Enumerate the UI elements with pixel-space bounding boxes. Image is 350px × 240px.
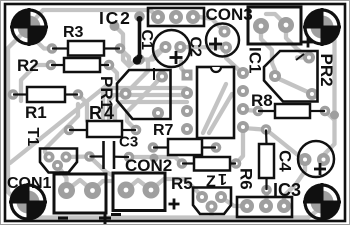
pads R3 bbox=[47, 43, 58, 54]
wire R2 right bbox=[109, 65, 117, 79]
wire IC1 pin1 up bbox=[181, 61, 187, 75]
wire jumper to C1 bbox=[140, 47, 166, 60]
pads C4 bbox=[299, 153, 312, 166]
potentiometer PR2 bbox=[264, 51, 318, 102]
mounting hole top-right bbox=[303, 8, 341, 46]
regulator IC3 body bbox=[237, 197, 292, 217]
pads R8 bbox=[253, 106, 264, 117]
wire C1 to C2 bbox=[180, 45, 226, 50]
resistor R7 bbox=[168, 139, 202, 155]
wire T1 to C3 bbox=[66, 154, 90, 159]
wire IC3 to C4 bbox=[284, 160, 305, 207]
pads R1 bbox=[8, 89, 19, 100]
capacitor C4 bbox=[298, 141, 334, 177]
svg-text:IC1: IC1 bbox=[246, 47, 265, 73]
minus CON2 bbox=[111, 213, 121, 216]
svg-text:IC2: IC2 bbox=[99, 8, 132, 28]
wire C3 to R5 bbox=[129, 157, 182, 164]
connector top-right 2-pad body bbox=[248, 7, 301, 44]
wire top rect pad2 down bbox=[286, 25, 309, 58]
pads IC1 left bbox=[181, 87, 193, 99]
op-amp IC1 DIP body bbox=[197, 67, 234, 138]
via pad C bbox=[110, 21, 120, 31]
potentiometer PR1 bbox=[117, 70, 171, 119]
svg-text:PR1: PR1 bbox=[97, 76, 116, 109]
wire T1 base diagonal bbox=[45, 104, 78, 157]
capacitor C1 bbox=[153, 30, 190, 67]
wire maze 1 bbox=[103, 88, 186, 126]
pads R6 bbox=[261, 124, 272, 135]
svg-text:R3: R3 bbox=[63, 24, 84, 41]
pads PR1 bbox=[120, 88, 132, 100]
wire R8 left to IC1 bbox=[246, 110, 258, 111]
svg-text:1: 1 bbox=[218, 170, 227, 187]
wire T1 emitter down bbox=[58, 166, 67, 191]
svg-text:R1: R1 bbox=[25, 103, 47, 122]
wire top rect pad1 down bbox=[261, 26, 275, 76]
resistor R1 bbox=[27, 87, 65, 102]
wire top rect diag bbox=[266, 14, 286, 25]
wire R2 left bbox=[21, 65, 51, 101]
wire PR1 wiper to C1 bbox=[126, 47, 166, 94]
pads R4 bbox=[64, 125, 75, 136]
via pad A bbox=[150, 154, 159, 163]
wire CON1 internal bbox=[67, 180, 93, 191]
pads PR2 bbox=[269, 70, 281, 82]
resistor R4 bbox=[87, 121, 122, 137]
jumper end dots bbox=[137, 16, 143, 22]
pads top 2-pad rect bbox=[253, 18, 269, 34]
pad layer bbox=[17, 16, 340, 214]
capacitor C3 bbox=[102, 141, 105, 169]
wire IC1 internal 1 bbox=[203, 84, 226, 133]
plus C1 bbox=[170, 56, 183, 59]
mounting pad top-right bbox=[311, 16, 334, 39]
pad holes bbox=[11, 15, 327, 209]
wire CON2 internal bbox=[126, 180, 151, 190]
pads IC1 right bbox=[237, 67, 249, 79]
connector CON1 body bbox=[54, 174, 106, 213]
wire IC1 pin to R6 top bbox=[243, 128, 263, 130]
polarity marks bbox=[58, 37, 326, 225]
svg-text:R6: R6 bbox=[237, 168, 256, 190]
pads T1 bbox=[44, 152, 55, 163]
pads Z1 bbox=[196, 191, 208, 203]
wire ground ring right vertical bbox=[322, 27, 335, 160]
resistor R3 bbox=[68, 41, 104, 56]
wire C3 pad to CON2 bbox=[90, 157, 112, 175]
wire maze 2 bbox=[109, 95, 187, 121]
svg-text:T1: T1 bbox=[24, 128, 41, 147]
via dot near PR1 bbox=[133, 56, 141, 64]
svg-text:IC3: IC3 bbox=[273, 180, 301, 200]
transistor T1 bbox=[40, 149, 77, 173]
wire IC1 internal 2 bbox=[209, 94, 232, 133]
svg-text:R8: R8 bbox=[251, 91, 273, 110]
svg-text:R7: R7 bbox=[153, 122, 174, 139]
svg-text:CON2: CON2 bbox=[125, 156, 172, 175]
transistor Z1 bbox=[193, 188, 231, 215]
svg-text:C1: C1 bbox=[138, 30, 155, 51]
wire R3 right bbox=[120, 49, 129, 65]
svg-text:C2: C2 bbox=[187, 37, 204, 58]
wire Z1 right to IC3 bbox=[221, 197, 247, 206]
pads C2 bbox=[219, 26, 231, 38]
resistor R8 bbox=[275, 104, 310, 118]
resistor R2 bbox=[64, 58, 100, 72]
wire R5 right up to IC1 bbox=[236, 128, 243, 164]
plus near PR2 bbox=[303, 41, 314, 44]
pads R5 bbox=[177, 158, 188, 169]
wire R6 top to C4 bbox=[266, 130, 305, 160]
wire R4 to PR1 top pad bbox=[127, 77, 161, 130]
wire IC2 pad down bbox=[115, 26, 135, 66]
resistor R5 bbox=[194, 157, 230, 171]
mounting pad bottom-right bbox=[311, 191, 334, 214]
pads jumper bbox=[134, 11, 145, 22]
minus CON1 bbox=[58, 217, 68, 220]
mounting pad bottom-left bbox=[17, 191, 40, 214]
jumper wire bbox=[138, 20, 142, 56]
pads C1 bbox=[160, 41, 172, 53]
svg-text:CON1: CON1 bbox=[7, 175, 52, 192]
mounting pad top-left bbox=[18, 16, 41, 39]
wire maze 3 bbox=[115, 102, 187, 120]
via pad B bbox=[330, 111, 339, 120]
wire C2 bottom to IC1 bbox=[226, 48, 243, 74]
pads IC3 bbox=[240, 199, 254, 213]
pads CON3 bbox=[151, 10, 165, 24]
wire PR2 top stub bbox=[297, 55, 309, 59]
pads CON1 bbox=[58, 182, 75, 199]
wire R8 right to ring bbox=[325, 111, 335, 120]
resistor R6 vertical bbox=[259, 144, 274, 178]
wire ground ring bottom bbox=[28, 202, 322, 218]
svg-text:R5: R5 bbox=[171, 174, 193, 193]
plus C4 bbox=[314, 168, 326, 171]
plus CON2 bbox=[169, 203, 180, 206]
pad IC1 pin1 square bbox=[182, 70, 193, 81]
wire CON1 to CON2 bbox=[93, 181, 113, 191]
svg-text:C3: C3 bbox=[119, 134, 138, 151]
pads R7 bbox=[148, 142, 159, 153]
wire R3 left stub bbox=[33, 38, 52, 49]
wire C2 top to CON3 bbox=[193, 17, 225, 32]
mounting hole bottom-right bbox=[303, 183, 341, 221]
svg-text:R2: R2 bbox=[17, 56, 39, 75]
mounting hole top-left bbox=[10, 8, 48, 46]
mounting hole bottom-left bbox=[9, 183, 47, 221]
pads C3 bbox=[84, 151, 95, 162]
svg-text:CON3: CON3 bbox=[206, 5, 253, 24]
svg-text:C4: C4 bbox=[276, 150, 295, 172]
wire top run hole to CON3 bbox=[29, 10, 158, 26]
wire Z1 center down bbox=[209, 207, 213, 217]
wire R6 bottom stub bbox=[264, 190, 268, 203]
wire CON2 to Z1 bbox=[151, 179, 202, 197]
connector CON2 body bbox=[113, 173, 165, 211]
plus C2 bbox=[209, 43, 222, 46]
wire long diagonal bbox=[10, 86, 106, 163]
svg-text:Z: Z bbox=[206, 174, 216, 191]
connector CON3 body bbox=[148, 8, 204, 26]
capacitor C2 bbox=[206, 24, 239, 57]
pads CON2 bbox=[118, 182, 135, 199]
plus CON1 bbox=[99, 217, 111, 220]
pads R2 bbox=[46, 60, 57, 71]
svg-text:PR2: PR2 bbox=[317, 54, 336, 87]
wire ground ring left bbox=[8, 27, 29, 202]
wire PR2 internal bbox=[277, 78, 310, 93]
wire R1 right bbox=[78, 95, 87, 122]
